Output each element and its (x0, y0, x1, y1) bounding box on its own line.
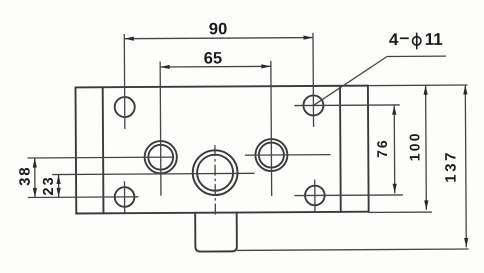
dimension line 137 (464, 85, 467, 247)
centerline horizontal bottom-right hole / 76 extension (294, 194, 402, 197)
arrow 65 left (160, 65, 170, 69)
centerline horizontal bottom-left hole / extension (28, 196, 138, 199)
arrow 137 up (463, 85, 467, 95)
hole top-right (303, 95, 323, 115)
centerline horizontal middle-left hole / 38 extension (28, 156, 174, 159)
arrow 38 down (33, 188, 37, 198)
hole top-left (115, 97, 135, 117)
arrow 90 right (303, 35, 313, 39)
svg-text:4: 4 (389, 30, 399, 49)
arrow 100 up (423, 85, 427, 95)
centerline horizontal center hole / 23 extension (52, 173, 254, 174)
svg-text:11: 11 (425, 30, 443, 49)
label 4-phi11 (389, 30, 443, 50)
arrow 137 down (464, 238, 468, 248)
centerline vertical middle-left hole (159, 61, 162, 195)
centerline vertical bottom-right hole (314, 180, 316, 212)
hole middle-left inner (148, 145, 173, 170)
hole bottom-left (115, 187, 135, 207)
centerline vertical top-right hole (312, 33, 315, 127)
arrow 23 down (57, 188, 61, 198)
svg-text:90: 90 (209, 20, 227, 38)
svg-text:38: 38 (17, 166, 34, 186)
arrow 38 up (33, 158, 37, 168)
centerline vertical top-left hole (123, 34, 126, 129)
arrow 76 up (392, 105, 396, 115)
centerline vertical middle-right hole (270, 61, 273, 196)
svg-text:100: 100 (406, 131, 422, 161)
leader line 4-phi11 (313, 56, 446, 105)
svg-text:76: 76 (374, 138, 390, 158)
extension line bottom edge right (369, 211, 432, 213)
centerline horizontal middle-right hole (245, 154, 330, 157)
dimension line 90 (124, 38, 313, 39)
left flange line (102, 87, 105, 213)
hole middle-left outer (145, 141, 177, 173)
svg-text:137: 137 (442, 150, 459, 183)
svg-text:65: 65 (204, 49, 222, 67)
bottom tab (195, 213, 237, 252)
dimension line 65 (160, 65, 271, 68)
arrow 90 left (124, 37, 134, 41)
dimension line 38 (34, 158, 36, 197)
hole middle-right inner (259, 142, 284, 167)
hole bottom-right (305, 186, 325, 206)
arrow 76 down (393, 184, 397, 194)
centerline horizontal top-right hole (294, 104, 399, 107)
right flange line (339, 86, 342, 212)
hole center outer (193, 150, 238, 195)
dimension line 23 (58, 175, 60, 198)
svg-text:23: 23 (41, 175, 57, 195)
hole middle-right outer (255, 139, 287, 171)
arrow 100 down (424, 200, 428, 210)
arrow 23 up (56, 175, 60, 185)
plate outline (76, 86, 369, 214)
extension line tab bottom right (237, 249, 469, 250)
extension line top edge right (368, 84, 468, 87)
dimension line 100 (425, 85, 428, 210)
centerline vertical bottom-left hole (123, 181, 125, 212)
dimension line 76 (393, 105, 396, 193)
centerline vertical center hole (dash-dot) (214, 145, 216, 217)
hole center inner (197, 155, 233, 191)
arrow 65 right (261, 64, 271, 68)
